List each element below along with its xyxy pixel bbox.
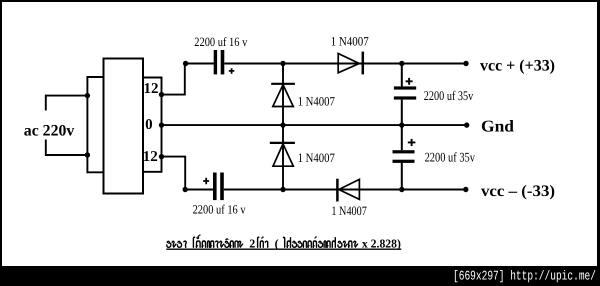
transformer T1 [104, 59, 144, 194]
wire C4 to bottom rail [401, 163, 403, 190]
node C4 bottom junction [399, 187, 404, 192]
node terminal Gnd [464, 122, 469, 127]
svg-text:1 N4007: 1 N4007 [298, 151, 336, 165]
node primary top junction [85, 93, 90, 98]
wire top rail C1 to terminal [224, 63, 466, 65]
wire primary bottom lead [87, 171, 105, 173]
svg-text:0: 0 [145, 117, 153, 133]
svg-text:vcc – (-33): vcc – (-33) [481, 183, 555, 200]
svg-text:ac 220v: ac 220v [24, 123, 75, 140]
capacitor C1 2200uf16v left plate [214, 50, 217, 74]
wire top rail to C1 [186, 63, 214, 65]
wire primary left bus [86, 76, 88, 173]
wire secondary bottom lead (12) [143, 171, 162, 173]
diode D2 1N4007 series top: triangle [338, 54, 359, 73]
label C3 plus [406, 78, 413, 85]
wire bottom jog vertical [184, 156, 186, 190]
svg-text:1 N4007: 1 N4007 [331, 35, 370, 49]
wire ac bottom stub [45, 140, 47, 156]
wire ac top [45, 95, 87, 97]
wire ac bottom [45, 154, 87, 156]
svg-text:[669x297] http://upic.me/: [669x297] http://upic.me/ [453, 268, 596, 283]
capacitor C2 2200uf16v left plate [213, 173, 217, 201]
svg-text:x 2.828): x 2.828) [362, 236, 401, 250]
svg-text:2: 2 [249, 236, 255, 250]
node terminal vcc- [463, 187, 468, 192]
diode D4 1N4007 series bottom: cathode bar [336, 179, 339, 202]
svg-text:1 N4007: 1 N4007 [298, 94, 336, 108]
node D3 top junction [280, 122, 285, 127]
capacitor C4 2200uf35v: wire from 0 rail [401, 125, 403, 150]
wire secondary right bus [161, 77, 163, 173]
label C4 plus [408, 139, 416, 146]
diode D1 triangle [273, 85, 294, 107]
svg-text:2200 uf 16 v: 2200 uf 16 v [194, 35, 248, 49]
diode D3 1N4007 shunt bottom: through wire [282, 125, 284, 189]
capacitor C2 right plate [220, 173, 224, 201]
wire C3 to 0 rail [401, 100, 403, 126]
svg-text:2200 uf 35v: 2200 uf 35v [425, 149, 476, 164]
wire secondary top lead (12) [143, 77, 162, 79]
wire 0 rail [162, 124, 467, 126]
node bottom rail start [183, 187, 188, 192]
watermark bar [0, 266, 600, 286]
label C2 plus [203, 178, 209, 184]
diode D3 triangle [273, 144, 293, 166]
svg-text:12: 12 [143, 149, 158, 165]
wire primary top lead [87, 76, 104, 78]
wire ac top stub [45, 95, 47, 111]
svg-text:2200 uf 35v: 2200 uf 35v [424, 88, 474, 103]
node secondary 12 top junction [159, 92, 164, 97]
caption thai title [166, 235, 401, 250]
capacitor C3 bottom plate [394, 96, 416, 99]
node top rail start [183, 61, 188, 66]
svg-text:(: ( [275, 236, 279, 250]
diode D1 1N4007 shunt top: through wire [282, 64, 284, 126]
wire top jog vertical [184, 64, 186, 96]
node secondary 0 junction [159, 122, 164, 127]
node D3 bottom junction [280, 187, 285, 192]
diode D1 cathode bar [271, 83, 295, 85]
capacitor C4 top plate [393, 150, 415, 153]
diode D3 cathode bar [270, 142, 295, 144]
wire bottom rail to C2 [185, 189, 214, 191]
label C1 plus [229, 68, 235, 74]
wire bottom jog horizontal [162, 156, 186, 158]
capacitor C3 2200uf35v: wire from top rail [401, 64, 403, 87]
node C3 C4 junction [399, 122, 404, 127]
node secondary 12 bottom junction [159, 154, 164, 159]
node D1 top junction [280, 61, 285, 66]
node primary bottom junction [85, 152, 90, 157]
node C3 top junction [399, 61, 404, 66]
wire top jog horizontal [162, 94, 185, 96]
svg-text:2200 uf 16 v: 2200 uf 16 v [193, 203, 247, 217]
capacitor C4 bottom plate [393, 160, 415, 163]
svg-text:vcc + (+33): vcc + (+33) [480, 57, 555, 74]
diode D4 triangle [339, 179, 360, 199]
node terminal vcc+ [463, 61, 468, 66]
capacitor C1 right plate [221, 50, 225, 74]
svg-text:Gnd: Gnd [481, 117, 514, 136]
diode D2 cathode bar [362, 52, 365, 75]
svg-text:1 N4007: 1 N4007 [331, 204, 367, 218]
capacitor C3 top plate [394, 86, 416, 89]
svg-text:12: 12 [144, 81, 159, 97]
wire bottom rail C2 to terminal [224, 189, 466, 191]
